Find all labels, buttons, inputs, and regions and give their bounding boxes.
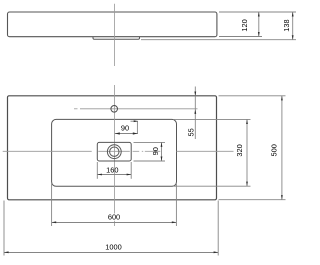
extension line top reference y=12 xyxy=(219,11,296,13)
svg-text:138: 138 xyxy=(282,19,291,31)
dimension 1000 line xyxy=(4,252,218,254)
plan view outer rect xyxy=(8,96,217,200)
extension line bottom of body y=36.5 xyxy=(219,36,262,38)
svg-text:90: 90 xyxy=(121,123,129,132)
svg-text:55: 55 xyxy=(187,128,196,136)
svg-text:90: 90 xyxy=(151,147,160,155)
dimension 1000 extension lines xyxy=(3,201,5,256)
dimension 600 extension lines xyxy=(51,183,53,226)
dimension 90 vertical extension lines xyxy=(134,141,166,143)
dimension 160 extension lines xyxy=(96,162,98,179)
faucet hole centerline xyxy=(80,108,198,110)
dimension 90 horizontal (faucet offset) extension line xyxy=(136,121,138,134)
leader arrow at inner edge xyxy=(131,120,138,122)
dimension 320 line xyxy=(246,119,248,186)
dimension 500 line xyxy=(281,96,283,200)
dimension 138 line xyxy=(292,12,294,40)
plan horizontal centerline xyxy=(3,150,92,152)
dimension 55 line xyxy=(194,87,196,140)
svg-text:1000: 1000 xyxy=(105,242,121,251)
drain outer circle xyxy=(107,145,121,159)
dimension 120 line xyxy=(258,12,260,37)
svg-text:320: 320 xyxy=(235,144,244,156)
svg-text:500: 500 xyxy=(270,144,279,156)
dimension 500 extension lines xyxy=(219,95,286,97)
drain rectangle xyxy=(97,142,131,161)
svg-text:120: 120 xyxy=(240,19,249,31)
dimension 160 line xyxy=(97,174,131,176)
faucet hole xyxy=(111,106,118,113)
svg-text:160: 160 xyxy=(106,166,118,175)
dimension 90 vertical line xyxy=(161,142,163,161)
dimension 90 horizontal line xyxy=(115,133,138,135)
drain inner circle xyxy=(110,147,119,156)
drain boss below elevation xyxy=(93,37,140,40)
elevation vertical centerline xyxy=(114,4,116,66)
basin front elevation body xyxy=(8,12,217,37)
dimension 320 extension lines xyxy=(173,118,251,120)
svg-text:600: 600 xyxy=(108,213,120,222)
plan vertical centerline xyxy=(114,85,116,214)
dimension 600 line xyxy=(52,222,177,224)
plan view inner basin recess xyxy=(52,119,177,186)
extension line bottom of boss y=39.7 xyxy=(141,39,296,41)
